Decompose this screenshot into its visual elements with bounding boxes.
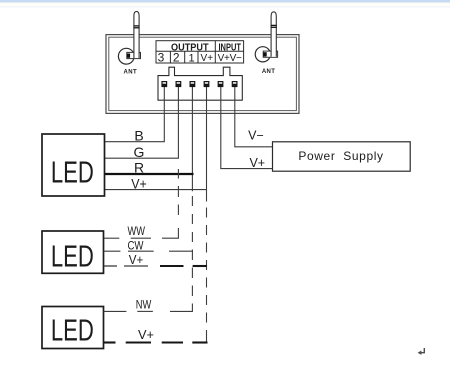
svg-text:R: R <box>134 160 144 176</box>
antenna right rod <box>271 12 276 57</box>
table cell divider 1|V+ <box>197 51 199 63</box>
svg-text:ANT: ANT <box>262 69 276 75</box>
svg-text:B: B <box>134 128 143 144</box>
top window edge band <box>0 0 450 3</box>
wire V+ row LED2 (dashed) <box>104 265 207 267</box>
terminal screw 1 <box>161 81 167 87</box>
terminal screw 5 <box>218 81 224 87</box>
svg-text:Power Supply: Power Supply <box>298 149 383 163</box>
terminal screw 3 <box>190 81 196 87</box>
table OUTPUT/INPUT divider <box>214 41 216 63</box>
dashed wire R to CW/NW <box>191 196 193 311</box>
wire CW row (dashed) <box>104 250 193 252</box>
svg-text:V+: V+ <box>138 327 154 342</box>
wire B row <box>105 141 165 143</box>
antenna right connector pin (black) <box>263 52 266 56</box>
antenna left rod <box>134 11 139 58</box>
antenna left joint lines <box>134 25 140 27</box>
antenna left connector circle <box>118 48 134 64</box>
svg-text:INPUT: INPUT <box>218 42 241 53</box>
table row divider <box>156 50 244 52</box>
wire WW row (dashed) <box>104 237 179 239</box>
terminal label table frame <box>156 41 244 63</box>
svg-text:V+: V+ <box>249 156 265 170</box>
terminal screw 4 <box>204 81 210 87</box>
table cell divider 3|2 <box>169 51 171 63</box>
svg-text:NW: NW <box>136 297 152 311</box>
antenna right connector circle <box>255 47 270 62</box>
svg-text:WW: WW <box>127 224 145 238</box>
svg-text:G: G <box>134 144 145 160</box>
svg-text:2: 2 <box>173 51 180 65</box>
svg-text:V+: V+ <box>201 53 214 64</box>
svg-text:V+V−: V+V− <box>218 53 242 64</box>
wire terminal3 to node B <box>163 87 165 142</box>
wire NW row (dashed) <box>104 310 193 312</box>
svg-text:V−: V− <box>248 129 264 143</box>
wire V+ row of LED1 <box>105 189 208 191</box>
svg-text:CW: CW <box>128 239 145 253</box>
paragraph return mark <box>418 348 425 355</box>
svg-text:3: 3 <box>158 51 165 65</box>
wire input V+ to power supply <box>221 87 273 169</box>
svg-text:ANT: ANT <box>124 70 138 76</box>
antenna right connector barrel <box>263 51 277 57</box>
wire terminal V+out down <box>206 87 208 202</box>
LED3 (NW strip) box <box>42 307 104 349</box>
wire V+ row LED3 (bold dashed) <box>104 341 208 343</box>
wire terminal2 to node G <box>177 87 179 158</box>
wire input V- to power supply <box>235 87 273 147</box>
table cell divider 2|1 <box>184 51 186 63</box>
svg-text:V+: V+ <box>131 175 147 191</box>
terminal screw 2 <box>176 81 182 87</box>
power supply box <box>273 142 411 171</box>
dashed wire V+ bus down <box>206 208 208 343</box>
terminal screw 6 <box>232 81 238 87</box>
connector block body <box>158 67 242 100</box>
LED2 (WW/CW strip) box <box>42 231 104 273</box>
svg-text:LED: LED <box>51 240 94 274</box>
antenna left connector barrel <box>127 52 141 58</box>
antenna left connector pin (black) <box>127 54 130 58</box>
LED1 (RGB strip) box <box>42 134 105 196</box>
svg-text:LED: LED <box>51 313 94 347</box>
antenna right joint lines <box>271 24 277 26</box>
wire G row <box>105 157 179 159</box>
svg-text:LED: LED <box>51 156 94 190</box>
dashed wire G to WW <box>177 169 179 238</box>
wire terminal1 to node R <box>191 87 193 191</box>
svg-text:1: 1 <box>189 52 195 64</box>
controller enclosure inner box <box>109 37 297 110</box>
wire R row (bold) <box>105 173 194 175</box>
controller enclosure outer box <box>106 35 299 114</box>
svg-text:V+: V+ <box>129 252 144 267</box>
